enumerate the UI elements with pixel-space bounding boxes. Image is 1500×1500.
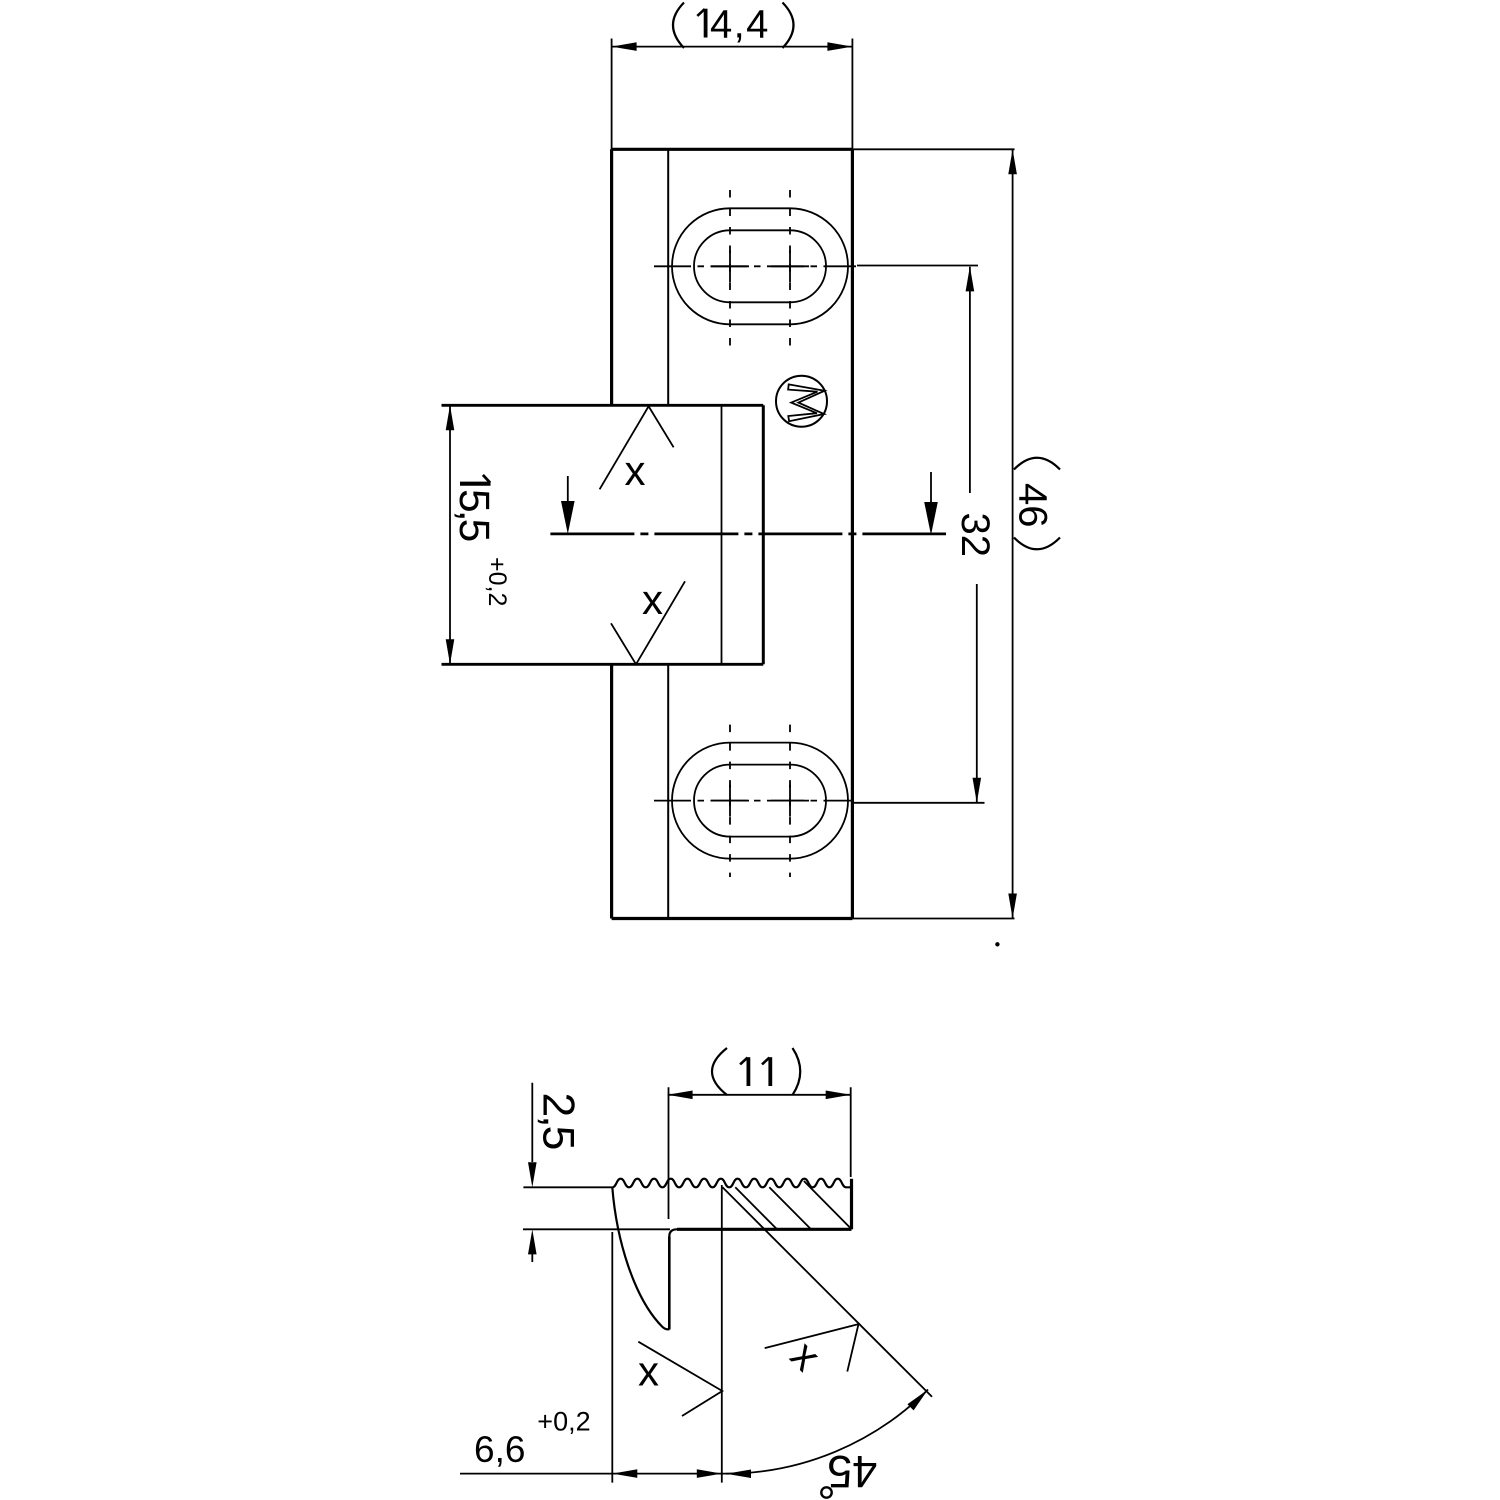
section extension line x=721.8 bbox=[721, 1185, 723, 1483]
side right edge bbox=[850, 1179, 853, 1230]
parens of (14,4) bbox=[673, 3, 684, 49]
small dot bbox=[995, 942, 999, 946]
roughness symbol S3 (rotated -90) bbox=[638, 1342, 722, 1416]
top slot inner obround bbox=[694, 230, 826, 302]
dim (11) right extension bbox=[850, 1087, 852, 1177]
dim 14,4 left arrow bbox=[612, 42, 637, 51]
svg-text:+0,2: +0,2 bbox=[537, 1407, 590, 1437]
leg fillet bbox=[669, 1229, 677, 1236]
svg-text:5,5: 5,5 bbox=[450, 489, 497, 541]
datum down-arrow right shaft bbox=[930, 472, 932, 503]
logo M zigzag outline bbox=[788, 384, 825, 421]
svg-text:x: x bbox=[638, 1348, 659, 1395]
tab inner vertical line bbox=[721, 405, 723, 664]
dim (46) bottom arrow bbox=[1008, 894, 1017, 919]
arc top arrow bbox=[907, 1390, 928, 1411]
dim 15,5 top arrow bbox=[446, 405, 455, 430]
top slot outer obround bbox=[672, 208, 848, 324]
datum down-arrow left head bbox=[561, 501, 575, 534]
leg right edge bbox=[668, 1237, 671, 1330]
dim 6,6 left arrow bbox=[612, 1469, 637, 1478]
svg-text:4,4: 4,4 bbox=[710, 3, 770, 47]
plate bottom edge extension to (46) dim bbox=[852, 918, 1014, 920]
dim (11) dimension line bbox=[668, 1094, 851, 1096]
top slot vertical centerline left bbox=[729, 190, 731, 346]
dim 32 bottom arrow bbox=[973, 778, 982, 803]
bottom slot outer obround bbox=[672, 743, 848, 859]
plate inner vertical line upper bbox=[667, 149, 669, 405]
dim (46) dimension line bbox=[1012, 149, 1014, 918]
plate left edge lower bbox=[610, 664, 613, 918]
plate inner vertical line lower bbox=[667, 664, 669, 918]
dim 2,5 upper shaft bbox=[531, 1083, 533, 1162]
side bottom extension thin (2,5 dim) bbox=[523, 1228, 670, 1230]
bottom slot vertical centerline right bbox=[789, 725, 791, 877]
bottom slot center cross ticks bbox=[711, 785, 809, 817]
dim 2,5 up arrow head bbox=[528, 1229, 537, 1254]
dim 6,6 right arrow bbox=[697, 1469, 722, 1478]
top slot vertical centerline right bbox=[789, 190, 791, 346]
text (11) bbox=[740, 1057, 748, 1086]
serrated top edge bbox=[612, 1179, 851, 1188]
top slot horizontal centerline bbox=[654, 265, 856, 267]
plate right edge bbox=[851, 149, 854, 918]
45 degree construction diagonal bbox=[723, 1187, 933, 1397]
bent tab curve bbox=[612, 1187, 669, 1329]
bottom slot inner obround bbox=[694, 765, 826, 837]
plate bottom edge bbox=[612, 917, 853, 920]
bottom slot extension line to 32-dim bbox=[854, 802, 985, 804]
svg-text:x: x bbox=[625, 447, 646, 494]
dim 14,4 right extension line bbox=[851, 39, 853, 150]
dim 2,5 lower shaft bbox=[531, 1254, 533, 1262]
roughness symbol S1 on tab bottom edge bbox=[611, 581, 685, 664]
svg-text:32: 32 bbox=[953, 513, 997, 558]
dim 14,4 left extension line bbox=[611, 39, 613, 150]
dim (11) left extension bbox=[668, 1087, 670, 1219]
side top extension thin (2,5 dim) bbox=[523, 1186, 612, 1188]
tab bottom edge bbox=[442, 663, 764, 666]
bottom slot horizontal centerline bbox=[654, 800, 852, 802]
bottom slot vertical centerline left bbox=[729, 725, 731, 877]
dim 14,4 right arrow bbox=[827, 42, 852, 51]
left extension line x=612.3 bbox=[611, 1232, 613, 1483]
dim (46) top arrow bbox=[1008, 149, 1017, 174]
svg-text:+0,2: +0,2 bbox=[483, 557, 511, 606]
dim 15,5 bottom arrow bbox=[446, 639, 455, 664]
dim 14,4 dimension line bbox=[612, 46, 853, 48]
datum down-arrow left shaft bbox=[567, 476, 569, 503]
dim 6,6 dimension line bbox=[460, 1473, 745, 1475]
plate left edge upper bbox=[610, 149, 613, 405]
logo circle bbox=[776, 376, 827, 427]
dim 15,5 dimension line bbox=[449, 405, 451, 664]
arc bottom arrow bbox=[726, 1469, 751, 1478]
roughness symbol S4 on diagonal (rotated 225) bbox=[765, 1324, 859, 1372]
plate top edge bbox=[612, 148, 853, 151]
svg-text:6,6: 6,6 bbox=[474, 1429, 525, 1470]
dim 32 dimension line upper segment bbox=[969, 267, 971, 493]
svg-text:x: x bbox=[642, 576, 663, 623]
text 15,5 rotated bbox=[450, 475, 497, 541]
dim 32 dimension line lower segment bbox=[976, 584, 978, 803]
top slot center cross ticks bbox=[711, 250, 809, 282]
degree circle of 45deg bbox=[821, 1487, 831, 1497]
svg-text:46: 46 bbox=[1011, 483, 1055, 528]
main horizontal centerline bbox=[550, 533, 946, 536]
dim (11) right arrow bbox=[826, 1091, 851, 1100]
45 degree arc bbox=[726, 1390, 928, 1474]
dim 32 top arrow bbox=[966, 266, 975, 291]
roughness symbol S2 on tab top edge (rotated 180) bbox=[600, 406, 674, 489]
hatch lines bbox=[735, 1181, 851, 1229]
text 14,4 bbox=[697, 9, 705, 38]
side bottom edge thick bbox=[677, 1228, 852, 1231]
dim (11) left arrow bbox=[668, 1091, 693, 1100]
svg-text:45: 45 bbox=[827, 1446, 877, 1497]
datum down-arrow right head bbox=[924, 502, 938, 535]
tab right edge bbox=[762, 405, 765, 664]
tab (notch) top edge bbox=[442, 404, 764, 407]
dim 2,5 down arrow head bbox=[528, 1162, 537, 1187]
plate top edge extension to (46) dim bbox=[852, 148, 1014, 150]
svg-text:2,5: 2,5 bbox=[534, 1093, 583, 1149]
top slot extension line to 32-dim bbox=[857, 265, 978, 267]
